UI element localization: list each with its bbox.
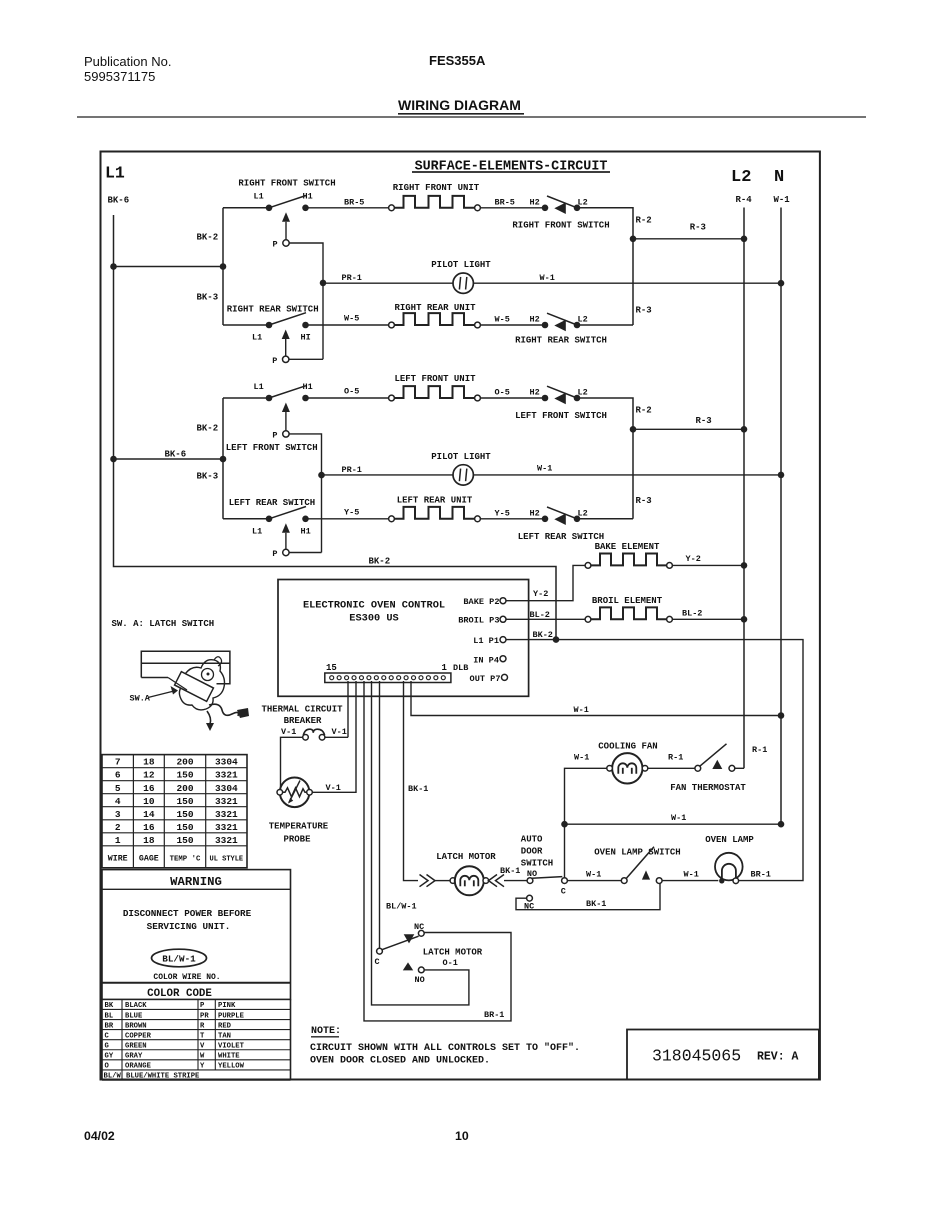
svg-text:LEFT FRONT SWITCH: LEFT FRONT SWITCH xyxy=(226,443,318,453)
svg-text:NOTE:: NOTE: xyxy=(311,1026,341,1037)
heating element coil bake element xyxy=(591,554,667,566)
svg-text:R-3: R-3 xyxy=(695,416,711,426)
svg-text:R: R xyxy=(200,1022,205,1030)
svg-text:O: O xyxy=(105,1063,110,1071)
svg-text:VIOLET: VIOLET xyxy=(218,1042,245,1050)
svg-text:SERVICING UNIT.: SERVICING UNIT. xyxy=(147,921,231,932)
right front switch blade xyxy=(269,196,306,208)
latch motor left terminal xyxy=(450,878,456,884)
svg-text:V: V xyxy=(200,1042,205,1050)
terminal IN P4 xyxy=(500,656,506,662)
left front unit right terminal xyxy=(475,395,481,401)
svg-text:LEFT REAR SWITCH: LEFT REAR SWITCH xyxy=(518,532,604,542)
latch switch leg xyxy=(207,711,211,724)
svg-text:BLACK: BLACK xyxy=(125,1002,147,1010)
wire Y-5 unit to H2 xyxy=(480,518,542,520)
svg-text:Y: Y xyxy=(200,1063,205,1071)
right front switch P stem xyxy=(285,222,287,240)
latch motor switch arrow down xyxy=(404,934,415,943)
node R-3 left to R-4 xyxy=(741,426,748,433)
svg-text:PILOT LIGHT: PILOT LIGHT xyxy=(431,260,491,270)
svg-text:BLUE/WHITE STRIPE: BLUE/WHITE STRIPE xyxy=(126,1072,200,1080)
strip pin 1 xyxy=(441,676,445,680)
cooling fan motor body xyxy=(612,753,642,783)
left front switch L1 contact xyxy=(266,395,273,402)
svg-text:TEMPERATURE: TEMPERATURE xyxy=(269,822,329,832)
svg-text:3321: 3321 xyxy=(215,835,238,846)
svg-text:THERMAL CIRCUIT: THERMAL CIRCUIT xyxy=(261,705,343,715)
temperature probe body xyxy=(280,778,310,808)
wire to right front switch L1 xyxy=(223,207,269,209)
svg-text:LEFT FRONT UNIT: LEFT FRONT UNIT xyxy=(394,374,476,384)
svg-text:BL/W-1: BL/W-1 xyxy=(162,953,196,964)
svg-text:RIGHT FRONT SWITCH: RIGHT FRONT SWITCH xyxy=(512,220,609,230)
right rear switch L2 side arrow xyxy=(554,320,566,332)
cooling fan motor winding symbol xyxy=(618,763,636,774)
wire BK-2 L1 P1 to oven lamp BR-1 xyxy=(506,640,803,881)
node W-1 at neutral xyxy=(778,821,785,828)
svg-text:W: W xyxy=(200,1053,205,1061)
auto door switch NO contact xyxy=(527,878,533,884)
svg-text:BL/W: BL/W xyxy=(104,1072,122,1080)
svg-text:CIRCUIT SHOWN WITH ALL CONTROL: CIRCUIT SHOWN WITH ALL CONTROLS SET TO "… xyxy=(310,1042,580,1054)
svg-text:PILOT LIGHT: PILOT LIGHT xyxy=(431,452,491,462)
svg-text:W-1: W-1 xyxy=(574,705,589,715)
pilot light 2 lamp xyxy=(453,465,473,485)
svg-text:BL-2: BL-2 xyxy=(682,608,702,618)
terminal BAKE P2 xyxy=(500,598,506,604)
SW.A leader line xyxy=(148,691,174,698)
wire strip to latch motor switch NC loop xyxy=(364,681,511,1021)
node W-1 junction at pilot light 1 line xyxy=(778,280,785,287)
svg-text:Y-2: Y-2 xyxy=(533,589,548,599)
pilot light 1 lamp xyxy=(453,273,473,293)
svg-text:TAN: TAN xyxy=(218,1032,231,1040)
svg-text:DOOR: DOOR xyxy=(521,847,543,857)
svg-text:L1: L1 xyxy=(105,164,125,183)
svg-text:P: P xyxy=(273,240,278,250)
svg-text:ES300 US: ES300 US xyxy=(349,613,398,625)
heating element coil left rear unit xyxy=(394,507,474,519)
svg-text:SW.A: SW.A xyxy=(130,694,151,704)
terminal BROIL P3 xyxy=(500,616,506,622)
right front switch L2 side H2 contact xyxy=(542,205,549,212)
left front switch H1 contact xyxy=(302,395,309,402)
oven lamp right terminal xyxy=(733,878,739,884)
svg-text:HI: HI xyxy=(301,333,311,343)
svg-text:BL: BL xyxy=(105,1012,114,1020)
svg-text:BK: BK xyxy=(105,1002,114,1010)
svg-text:150: 150 xyxy=(176,770,193,781)
right front switch P terminal xyxy=(283,240,289,246)
svg-text:W-5: W-5 xyxy=(495,315,510,325)
wire W-1 from pilot light 2 xyxy=(473,474,781,476)
bake element right terminal xyxy=(667,563,673,569)
wire BK-6 branch lower xyxy=(114,458,224,460)
wire left switch-box left side xyxy=(222,398,224,519)
temperature probe arrow xyxy=(289,781,300,803)
svg-text:LEFT REAR SWITCH: LEFT REAR SWITCH xyxy=(229,498,315,508)
EOC terminal strip xyxy=(325,673,451,683)
oven lamp switch left contact xyxy=(621,878,627,884)
oven lamp bulb xyxy=(715,853,743,881)
svg-text:FAN THERMOSTAT: FAN THERMOSTAT xyxy=(670,783,746,793)
left rear unit right terminal xyxy=(475,516,481,522)
left rear switch blade xyxy=(269,507,306,519)
svg-text:W-1: W-1 xyxy=(540,273,555,283)
latch motor switch arrow up xyxy=(403,962,413,970)
left front switch P terminal xyxy=(283,431,289,437)
svg-text:R-3: R-3 xyxy=(636,496,652,506)
latch switch mounting plate xyxy=(141,651,230,684)
svg-text:10: 10 xyxy=(455,1129,469,1143)
wire BR-5 unit to H2 xyxy=(480,207,542,209)
auto door switch blade xyxy=(532,877,563,879)
latch switch tail wire xyxy=(209,704,238,716)
left rear switch P stem xyxy=(285,533,287,550)
wire O-5 to left front unit xyxy=(309,397,389,399)
svg-text:3304: 3304 xyxy=(215,783,238,794)
warning box xyxy=(102,870,291,1000)
wire to left front switch L1 xyxy=(223,397,269,399)
svg-text:H2: H2 xyxy=(530,198,540,208)
svg-text:OVEN DOOR CLOSED AND UNLOCKED.: OVEN DOOR CLOSED AND UNLOCKED. xyxy=(310,1056,490,1067)
left front switch L2 side arrow xyxy=(554,393,566,405)
part number box xyxy=(627,1030,819,1080)
svg-text:1: 1 xyxy=(115,835,121,846)
svg-text:R-4: R-4 xyxy=(736,195,753,205)
oven lamp switch right contact xyxy=(656,878,662,884)
svg-text:BK-1: BK-1 xyxy=(408,784,428,794)
wire W-1 C to lamp switch xyxy=(567,880,621,882)
svg-text:BROWN: BROWN xyxy=(125,1022,147,1030)
svg-text:5: 5 xyxy=(115,783,121,794)
svg-text:RED: RED xyxy=(218,1022,232,1030)
svg-text:PINK: PINK xyxy=(218,1002,236,1010)
pilot light 1 filament bar 2 xyxy=(466,277,467,290)
svg-text:18: 18 xyxy=(143,757,155,768)
svg-text:C: C xyxy=(375,957,380,967)
right rear unit right terminal xyxy=(475,322,481,328)
left rear switch H1 contact xyxy=(302,516,309,523)
svg-text:Y-2: Y-2 xyxy=(686,554,701,564)
latch motor switch blade xyxy=(382,936,419,950)
svg-text:150: 150 xyxy=(176,796,193,807)
temperature probe arrowhead xyxy=(288,798,293,804)
svg-text:OVEN LAMP SWITCH: OVEN LAMP SWITCH xyxy=(594,848,680,858)
svg-text:PURPLE: PURPLE xyxy=(218,1012,245,1020)
svg-text:R-2: R-2 xyxy=(636,216,652,226)
breaker right terminal xyxy=(319,735,325,741)
wire to latch motor xyxy=(435,880,450,882)
wire Y-2 bake to R-4 xyxy=(672,564,744,566)
svg-text:NO: NO xyxy=(415,975,425,985)
svg-text:GY: GY xyxy=(105,1053,114,1061)
svg-text:V-1: V-1 xyxy=(332,727,347,737)
left front switch P arrow xyxy=(282,403,290,413)
wire right rear L2 to R-2 vertical xyxy=(577,324,633,326)
wire left rear P to pilot tap xyxy=(289,552,321,554)
wire Y-5 to left rear unit xyxy=(309,518,389,520)
fan left terminal xyxy=(607,766,613,772)
right rear switch H1 contact xyxy=(302,322,309,329)
svg-text:H2: H2 xyxy=(530,509,540,519)
node BK-6 junction 2 xyxy=(110,456,117,463)
cooling fan motor winding mid-left xyxy=(622,768,624,774)
thermal circuit breaker symbol xyxy=(303,729,324,735)
svg-text:OUT P7: OUT P7 xyxy=(470,674,501,684)
wire W-5 to right rear unit xyxy=(309,324,389,326)
fan thermostat right contact xyxy=(729,765,735,771)
svg-text:4: 4 xyxy=(115,796,121,807)
node BK-2 feeder joins L1 P1 xyxy=(553,636,560,643)
svg-text:COPPER: COPPER xyxy=(125,1032,152,1040)
svg-text:BAKE P2: BAKE P2 xyxy=(463,597,499,607)
node BK-6 branch upper end xyxy=(220,263,227,270)
svg-text:150: 150 xyxy=(176,835,193,846)
fan thermostat blade xyxy=(700,744,727,766)
svg-text:L1 P1: L1 P1 xyxy=(473,636,499,646)
svg-text:SWITCH: SWITCH xyxy=(521,859,553,869)
latch switch lever xyxy=(168,678,187,691)
latch motor switch NO contact xyxy=(418,967,424,973)
svg-text:W-1: W-1 xyxy=(574,753,589,763)
svg-text:ELECTRONIC OVEN CONTROL: ELECTRONIC OVEN CONTROL xyxy=(303,600,445,612)
left rear switch L2 side blade xyxy=(547,507,577,519)
svg-text:Y-5: Y-5 xyxy=(344,508,359,518)
svg-text:BK-1: BK-1 xyxy=(586,899,606,909)
svg-text:COLOR WIRE NO.: COLOR WIRE NO. xyxy=(153,973,220,982)
svg-text:150: 150 xyxy=(176,809,193,820)
svg-text:BK-1: BK-1 xyxy=(500,866,520,876)
fan thermostat arrow xyxy=(712,760,722,769)
header title underline xyxy=(398,113,524,115)
wire BL-2 broil feed xyxy=(506,618,585,620)
broil element left terminal xyxy=(585,616,591,622)
left rear switch P arrow xyxy=(282,523,290,533)
svg-text:1: 1 xyxy=(442,663,448,673)
fan thermostat left contact xyxy=(695,765,701,771)
svg-text:P: P xyxy=(200,1002,205,1010)
svg-text:3321: 3321 xyxy=(215,770,238,781)
wire to left rear switch L1 xyxy=(223,518,269,520)
svg-text:COOLING FAN: COOLING FAN xyxy=(598,742,657,752)
left rear switch L2 side H2 contact xyxy=(542,516,549,523)
wire PR-1 to pilot light 2 xyxy=(322,474,454,476)
latch motor right terminal xyxy=(483,878,489,884)
svg-text:R-2: R-2 xyxy=(636,406,652,416)
svg-text:WIRING DIAGRAM: WIRING DIAGRAM xyxy=(398,97,521,113)
wire W-1 neutral vertical xyxy=(780,208,782,825)
latch switch body xyxy=(179,660,224,710)
wire BK-6 branch upper xyxy=(114,266,224,268)
svg-text:200: 200 xyxy=(176,783,193,794)
svg-text:H2: H2 xyxy=(530,388,540,398)
wire V-1 strip to temperature probe xyxy=(312,681,356,792)
svg-text:P: P xyxy=(272,430,277,440)
svg-text:BLUE: BLUE xyxy=(125,1012,143,1020)
node R-3 tap left xyxy=(630,426,637,433)
svg-text:3321: 3321 xyxy=(215,809,238,820)
wire BK-6/BK-2 left feeder xyxy=(114,215,557,640)
svg-text:3321: 3321 xyxy=(215,822,238,833)
pilot light 2 filament bar 2 xyxy=(466,469,467,482)
node BK-6 junction 1 xyxy=(110,263,117,270)
svg-text:BK-6: BK-6 xyxy=(108,196,130,206)
svg-text:BAKE ELEMENT: BAKE ELEMENT xyxy=(595,542,660,552)
oven lamp switch blade xyxy=(626,847,654,879)
color wire number ellipse xyxy=(152,949,207,967)
right front switch L1 contact xyxy=(266,205,273,212)
svg-text:PR-1: PR-1 xyxy=(342,273,362,283)
svg-text:BK-2: BK-2 xyxy=(197,424,219,434)
svg-text:WARNING: WARNING xyxy=(170,875,222,889)
svg-text:V-1: V-1 xyxy=(281,727,296,737)
right rear switch blade xyxy=(269,313,306,325)
wire breaker to strip xyxy=(325,736,348,738)
wire BK-1 to auto door switch xyxy=(504,880,527,882)
wire gauge table xyxy=(102,755,247,868)
svg-text:IN P4: IN P4 xyxy=(473,655,499,665)
svg-text:G: G xyxy=(105,1042,109,1050)
right front unit left terminal xyxy=(389,205,395,211)
svg-text:GREEN: GREEN xyxy=(125,1042,147,1050)
wire strip to thermal breaker xyxy=(347,681,349,737)
left front switch blade xyxy=(269,386,306,398)
svg-text:LATCH MOTOR: LATCH MOTOR xyxy=(423,948,483,958)
wire W-1 fan feed xyxy=(565,768,607,880)
heating element coil right front unit xyxy=(394,196,474,208)
probe left terminal xyxy=(277,790,283,796)
wire BK-1 NC branch xyxy=(516,884,660,910)
node R-3 to R-4 xyxy=(741,236,748,243)
svg-text:C: C xyxy=(105,1032,110,1040)
connector chevrons left-pointing xyxy=(489,875,505,887)
svg-text:18: 18 xyxy=(143,835,155,846)
title underline xyxy=(412,171,610,173)
svg-text:BK-3: BK-3 xyxy=(197,293,219,303)
wire R-4/R-1 vertical xyxy=(743,208,745,769)
latch motor winding mid-left xyxy=(464,880,466,886)
wire R-2 vertical left xyxy=(577,398,633,519)
right rear switch L2 side H2 contact xyxy=(542,322,549,329)
warning bottom rule xyxy=(102,982,291,984)
svg-text:L1: L1 xyxy=(254,382,264,392)
right front switch H1 contact xyxy=(302,205,309,212)
svg-text:BR-5: BR-5 xyxy=(495,198,515,208)
wire PR-1 to pilot light 1 xyxy=(323,282,453,284)
svg-text:W-5: W-5 xyxy=(344,314,359,324)
svg-text:3: 3 xyxy=(115,809,121,820)
svg-text:BK-2: BK-2 xyxy=(369,557,391,567)
pilot light 2 filament bar 1 xyxy=(459,469,460,482)
svg-text:BROIL ELEMENT: BROIL ELEMENT xyxy=(592,596,663,606)
breaker left terminal xyxy=(303,735,309,741)
wire left rear L2 to R-2 vertical xyxy=(577,518,633,520)
svg-text:W-1: W-1 xyxy=(537,464,552,474)
color code table xyxy=(102,1008,291,1010)
latch motor body xyxy=(455,866,484,895)
svg-text:BR-1: BR-1 xyxy=(751,869,771,879)
electronic oven control EOC box xyxy=(278,580,529,697)
svg-text:BR: BR xyxy=(105,1022,114,1030)
svg-text:RIGHT REAR SWITCH: RIGHT REAR SWITCH xyxy=(515,335,607,345)
svg-text:15: 15 xyxy=(326,663,337,673)
right rear switch L2 side L2 contact xyxy=(574,322,581,329)
svg-text:L1: L1 xyxy=(252,333,262,343)
wire breaker to probe xyxy=(281,737,303,789)
latch microswitch xyxy=(175,672,214,702)
right front switch P arrow xyxy=(282,212,290,222)
left front switch P stem xyxy=(285,412,287,431)
left front switch L2 side H2 contact xyxy=(542,395,549,402)
wire R-1 fan to thermostat xyxy=(648,767,695,769)
svg-text:T: T xyxy=(200,1032,205,1040)
svg-text:PR: PR xyxy=(200,1012,209,1020)
left rear switch L1 contact xyxy=(266,516,273,523)
svg-text:BREAKER: BREAKER xyxy=(284,716,322,726)
wire W-1 from pilot light 1 xyxy=(473,282,781,284)
wire R-3 right xyxy=(633,238,744,240)
fan right terminal xyxy=(642,766,648,772)
svg-text:L1: L1 xyxy=(254,192,264,202)
svg-text:RIGHT REAR UNIT: RIGHT REAR UNIT xyxy=(394,303,476,313)
svg-text:COLOR CODE: COLOR CODE xyxy=(147,988,212,1000)
svg-text:W-1: W-1 xyxy=(671,813,686,823)
broil element right terminal xyxy=(667,616,673,622)
svg-text:R-3: R-3 xyxy=(636,306,652,316)
svg-text:P: P xyxy=(272,356,277,366)
left front unit left terminal xyxy=(389,395,395,401)
svg-text:BR-1: BR-1 xyxy=(484,1010,504,1020)
svg-text:BROIL P3: BROIL P3 xyxy=(458,616,499,626)
wire to right rear switch L1 xyxy=(223,324,269,326)
node W-1 junction at pilot light 2 line xyxy=(778,472,785,479)
svg-text:W-1: W-1 xyxy=(586,869,601,879)
wire right rear P to pilot tap xyxy=(289,358,323,360)
wire W-1 switch to lamp xyxy=(662,880,718,882)
wire W-1 lamp feed xyxy=(565,823,782,825)
node R-3 tap right xyxy=(630,236,637,243)
svg-text:H2: H2 xyxy=(530,315,540,325)
wire R-3 left xyxy=(633,428,744,430)
svg-text:C: C xyxy=(561,887,566,897)
bake element left terminal xyxy=(585,563,591,569)
svg-text:O-5: O-5 xyxy=(344,387,359,397)
right rear switch L1 contact xyxy=(266,322,273,329)
svg-text:H1: H1 xyxy=(301,527,311,537)
strip pin 15 xyxy=(330,676,334,680)
right rear switch P stem xyxy=(285,339,287,356)
svg-text:BK-6: BK-6 xyxy=(165,450,187,460)
left rear switch P terminal xyxy=(283,549,289,555)
latch switch foot xyxy=(206,723,214,731)
svg-text:16: 16 xyxy=(143,783,155,794)
latch motor winding symbol xyxy=(460,876,478,887)
latch switch hand xyxy=(171,686,179,695)
wire BL/W-1 strip to latch switch C xyxy=(379,681,381,948)
wire R-2 vertical right xyxy=(577,208,633,325)
svg-text:V-1: V-1 xyxy=(326,783,341,793)
svg-text:O-5: O-5 xyxy=(495,388,510,398)
oven lamp left terminal xyxy=(719,878,724,883)
svg-text:5995371175: 5995371175 xyxy=(84,69,155,84)
svg-text:OVEN LAMP: OVEN LAMP xyxy=(705,835,754,845)
node bake to R-4 xyxy=(741,562,748,569)
svg-text:NC: NC xyxy=(524,902,534,912)
terminal OUT P7 xyxy=(502,674,508,680)
svg-text:BR-5: BR-5 xyxy=(344,198,364,208)
